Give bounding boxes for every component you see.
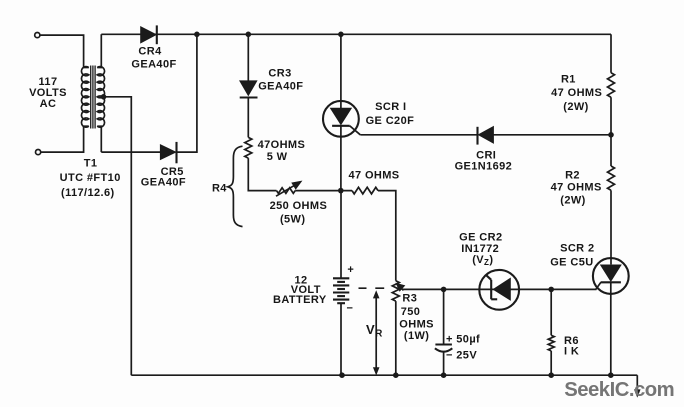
node R6 bottom	[548, 372, 554, 378]
diode CR3	[240, 81, 258, 98]
wire SCR1 gate to CRI	[360, 134, 477, 136]
svg-text:T1: T1	[84, 158, 98, 170]
node CRI / R1 / R2	[608, 132, 614, 138]
svg-text:(5W): (5W)	[280, 214, 305, 226]
node top rail / CR5 branch	[194, 32, 200, 38]
svg-text:47 OHMS: 47 OHMS	[551, 182, 602, 194]
wire R2 to SCR2	[610, 190, 612, 264]
svg-text:− 25V: − 25V	[446, 349, 477, 361]
svg-text:5 W: 5 W	[267, 151, 288, 163]
wire pot to battery node	[295, 190, 341, 192]
svg-text:SCR 2: SCR 2	[560, 242, 594, 254]
R3 wiper arrow	[396, 283, 404, 291]
svg-text:250 OHMS: 250 OHMS	[270, 200, 328, 212]
brace R4	[228, 146, 243, 226]
wire CR3 to resistor	[247, 98, 249, 138]
transformer T1 secondary winding	[97, 34, 101, 67]
svg-text:GEA40F: GEA40F	[131, 58, 176, 70]
SCR2	[593, 258, 629, 294]
resistor R6	[548, 335, 554, 351]
svg-text:GE CR2: GE CR2	[459, 232, 502, 244]
wire resistor down to pot row	[248, 158, 276, 191]
node cap / zener	[441, 287, 447, 293]
node zener / R6 / SCR2 gate	[548, 287, 554, 293]
wire CRI to R1/R2 node	[494, 134, 612, 136]
zener diode CR2	[479, 270, 519, 310]
wire SCR1 anode	[340, 34, 342, 108]
output stub with arrow	[635, 375, 640, 396]
wire CR3 branch	[247, 34, 249, 81]
resistor R2	[608, 166, 615, 190]
resistor 47 OHMS 5W (R4 upper)	[245, 137, 252, 158]
wire 47 ohm to R3 drop	[341, 191, 396, 281]
svg-text:R4: R4	[212, 183, 227, 195]
resistor R3 750 OHMS	[392, 281, 399, 301]
svg-text:750: 750	[401, 306, 421, 318]
VR measurement arrow	[374, 291, 379, 374]
svg-text:GE1N1692: GE1N1692	[455, 161, 513, 173]
transformer T1 core	[90, 66, 92, 129]
dashed wiper reference line	[359, 287, 385, 289]
svg-text:47 OHMS: 47 OHMS	[551, 87, 602, 99]
svg-text:BATTERY: BATTERY	[273, 294, 327, 306]
svg-text:(2W): (2W)	[563, 101, 588, 113]
wire right rail down from top	[610, 34, 612, 73]
svg-text:OHMS: OHMS	[399, 318, 434, 330]
svg-text:(1W): (1W)	[404, 330, 429, 342]
battery 12 V	[333, 191, 349, 376]
svg-text:GEA40F: GEA40F	[141, 176, 186, 188]
wire bottom rail	[131, 374, 637, 376]
node SCR2 bottom	[608, 372, 614, 378]
svg-text:R3: R3	[402, 293, 417, 305]
svg-text:(117/12.6): (117/12.6)	[61, 187, 115, 199]
node R3 bottom	[393, 372, 399, 378]
wire R1 to node	[610, 97, 612, 166]
wire center tap to left drop	[104, 97, 132, 375]
potentiometer 250 OHMS (R4 lower)	[277, 188, 296, 194]
svg-text:AC: AC	[40, 98, 57, 110]
svg-text:GEA40F: GEA40F	[258, 81, 303, 93]
input terminal bottom	[36, 150, 41, 155]
svg-text:I K: I K	[564, 346, 579, 358]
wire SCR1 cathode	[340, 126, 342, 191]
SCR1	[323, 101, 360, 137]
svg-text:−: −	[346, 303, 353, 315]
svg-text:CR4: CR4	[138, 45, 162, 57]
svg-text:47 OHMS: 47 OHMS	[348, 169, 399, 181]
svg-text:R2: R2	[565, 169, 580, 181]
wire SCR2 cathode	[610, 282, 612, 375]
wire zener row	[444, 288, 552, 290]
resistor R1	[608, 73, 615, 97]
diode CR5	[160, 142, 176, 163]
svg-text:(2W): (2W)	[560, 195, 585, 207]
node SCR1 anode on top rail	[338, 32, 344, 38]
svg-text:(VZ): (VZ)	[472, 254, 493, 267]
potentiometer wiper arrow	[276, 181, 302, 196]
svg-text:SCR I: SCR I	[375, 101, 406, 113]
node cap bottom	[441, 372, 447, 378]
wire secondary bottom to CR5	[101, 151, 160, 153]
node center tap	[101, 94, 107, 100]
capacitor 50uf	[435, 345, 452, 352]
node pot / 47 ohm / battery	[338, 188, 344, 194]
wire wiper row to cap node	[403, 288, 444, 290]
diode CRI	[478, 126, 494, 144]
svg-text:+ 50µf: + 50µf	[446, 334, 480, 346]
node battery bottom	[339, 372, 345, 378]
svg-text:+: +	[347, 264, 354, 276]
svg-text:GE C5U: GE C5U	[550, 257, 593, 269]
wire bottom terminal to transformer primary	[41, 126, 84, 152]
wire top rail	[101, 33, 611, 35]
resistor 47 OHMS horizontal	[352, 187, 378, 194]
svg-text:R1: R1	[561, 74, 576, 86]
capacitor 50uf wire	[443, 289, 445, 344]
diode CR4	[141, 25, 157, 44]
svg-text:47OHMS: 47OHMS	[258, 139, 306, 151]
svg-text:UTC #FT10: UTC #FT10	[60, 172, 121, 184]
wire R3 bottom to rail	[395, 301, 397, 375]
wire R6 top	[550, 289, 552, 335]
wire R6 bottom	[550, 351, 552, 375]
wire cap to rail	[443, 352, 445, 375]
node top rail / CR3 branch	[246, 32, 252, 38]
input terminal top	[35, 33, 40, 38]
wire top terminal to transformer primary	[40, 35, 84, 67]
transformer T1 primary winding	[84, 67, 89, 69]
wire node to SCR2 gate	[551, 288, 596, 290]
wire CR5 up to top rail	[177, 34, 197, 152]
svg-text:GE C20F: GE C20F	[366, 115, 415, 127]
svg-text:SeekIC.com: SeekIC.com	[564, 379, 674, 401]
svg-text:CR3: CR3	[268, 68, 291, 80]
